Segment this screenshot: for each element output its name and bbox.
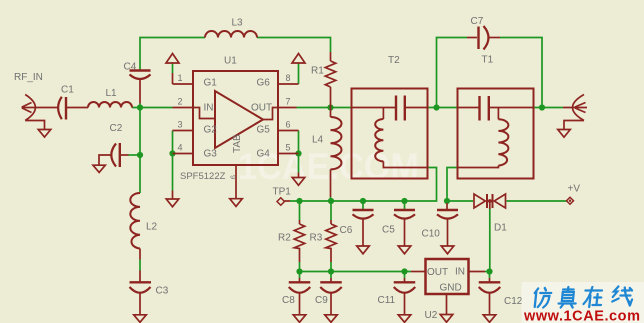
svg-text:U1: U1 — [224, 56, 237, 67]
svg-text:5: 5 — [286, 143, 291, 153]
svg-text:L1: L1 — [106, 88, 118, 99]
svg-text:OUT: OUT — [427, 267, 448, 278]
svg-text:TP1: TP1 — [273, 187, 292, 198]
svg-text:L2: L2 — [146, 222, 158, 233]
svg-text:9: 9 — [229, 175, 238, 179]
svg-text:C3: C3 — [156, 286, 169, 297]
svg-text:OUT: OUT — [251, 103, 272, 114]
svg-text:L3: L3 — [232, 18, 244, 29]
svg-text:C8: C8 — [282, 295, 295, 306]
svg-text:C10: C10 — [422, 229, 441, 240]
svg-text:D1: D1 — [494, 223, 507, 234]
svg-text:C4: C4 — [124, 62, 137, 73]
svg-text:G4: G4 — [257, 149, 271, 160]
svg-text:8: 8 — [286, 73, 291, 83]
svg-text:G1: G1 — [204, 78, 218, 89]
svg-text:www.1CAE.com: www.1CAE.com — [523, 309, 640, 323]
svg-text:C1: C1 — [61, 85, 74, 96]
svg-text:1: 1 — [178, 73, 183, 83]
svg-text:G3: G3 — [204, 149, 218, 160]
svg-text:GND: GND — [440, 283, 462, 294]
svg-text:RF_IN: RF_IN — [14, 72, 43, 83]
svg-text:T2: T2 — [388, 55, 400, 66]
svg-text:C7: C7 — [471, 16, 484, 27]
svg-text:7: 7 — [286, 97, 291, 107]
svg-text:R2: R2 — [278, 233, 291, 244]
svg-text:C11: C11 — [378, 295, 396, 306]
svg-text:T1: T1 — [482, 55, 494, 66]
svg-text:6: 6 — [286, 120, 291, 130]
svg-text:C5: C5 — [382, 225, 395, 236]
svg-text:C9: C9 — [315, 295, 328, 306]
svg-text:IN: IN — [204, 103, 214, 114]
svg-text:C6: C6 — [340, 225, 353, 236]
svg-text:C2: C2 — [110, 123, 123, 134]
svg-text:2: 2 — [178, 97, 183, 107]
svg-text:R3: R3 — [310, 233, 323, 244]
svg-text:SPF5122Z: SPF5122Z — [180, 171, 226, 182]
svg-text:R1: R1 — [311, 66, 324, 77]
svg-text:G5: G5 — [257, 125, 271, 136]
svg-text:G2: G2 — [204, 125, 218, 136]
svg-text:3: 3 — [178, 120, 183, 130]
svg-text:4: 4 — [178, 143, 183, 153]
svg-text:IN: IN — [455, 267, 465, 278]
svg-text:+V: +V — [568, 184, 581, 195]
svg-text:C12: C12 — [504, 296, 523, 307]
svg-text:L4: L4 — [312, 135, 324, 146]
svg-text:G6: G6 — [257, 78, 271, 89]
svg-text:U2: U2 — [425, 310, 438, 321]
svg-text:TAB: TAB — [232, 134, 243, 153]
